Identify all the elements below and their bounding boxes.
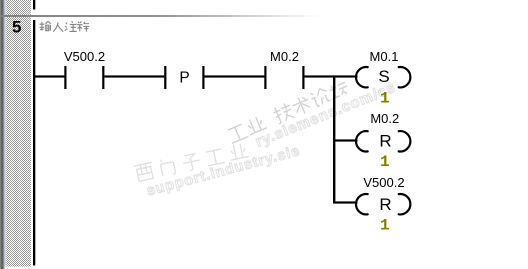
network comment: shu ru zhu shi (grey) — [40, 21, 90, 31]
coil R M0.2 — [356, 131, 410, 151]
svg-text:S: S — [378, 67, 389, 86]
wire contact3 to coil S — [305, 75, 358, 77]
contact V500.2 right bar — [102, 66, 104, 89]
power rail stub of previous network — [33, 0, 35, 10]
svg-text:1: 1 — [380, 216, 390, 234]
watermark chinese line: ye ji shu lun tan (top right) — [226, 78, 351, 144]
svg-text:1: 1 — [380, 89, 390, 107]
svg-text:P: P — [179, 69, 189, 86]
network margin hatched column — [6, 0, 31, 267]
contact V500.2 left bar — [64, 66, 66, 89]
svg-text:R: R — [379, 132, 391, 151]
contact M0.2 right bar — [302, 66, 304, 89]
wire contact2 to contact3 — [205, 75, 265, 77]
wire branch to coil R M0.2 — [335, 139, 358, 141]
svg-text:M0.1: M0.1 — [370, 49, 399, 64]
watermark latin line ustry.siemens.com/cs — [253, 79, 399, 151]
svg-text:M0.2: M0.2 — [370, 111, 399, 126]
watermark chinese line: xi men zi gong ye (west center) — [134, 142, 249, 182]
wire branch to coil R V500.2 — [335, 201, 358, 203]
coil R V500.2 — [356, 194, 410, 214]
power rail — [33, 20, 35, 266]
svg-text:R: R — [379, 195, 391, 214]
network separator line — [0, 15, 340, 17]
svg-text:1: 1 — [380, 153, 390, 171]
wire rail to contact 1 — [35, 75, 65, 77]
svg-text:V500.2: V500.2 — [363, 175, 404, 190]
contact M0.2 left bar — [264, 66, 266, 89]
left window edge groove — [0, 0, 5, 269]
left blue strip — [5, 0, 7, 267]
svg-text:5: 5 — [12, 18, 21, 37]
coil S M0.1 — [356, 67, 410, 87]
watermark latin line support.industry.sie — [145, 143, 302, 199]
branch rail vertical — [333, 75, 335, 203]
contact P right bar — [202, 66, 204, 89]
svg-text:M0.2: M0.2 — [270, 49, 299, 64]
contact P left bar — [164, 66, 166, 89]
svg-text:V500.2: V500.2 — [64, 49, 105, 64]
wire contact1 to contact2 — [104, 75, 164, 77]
